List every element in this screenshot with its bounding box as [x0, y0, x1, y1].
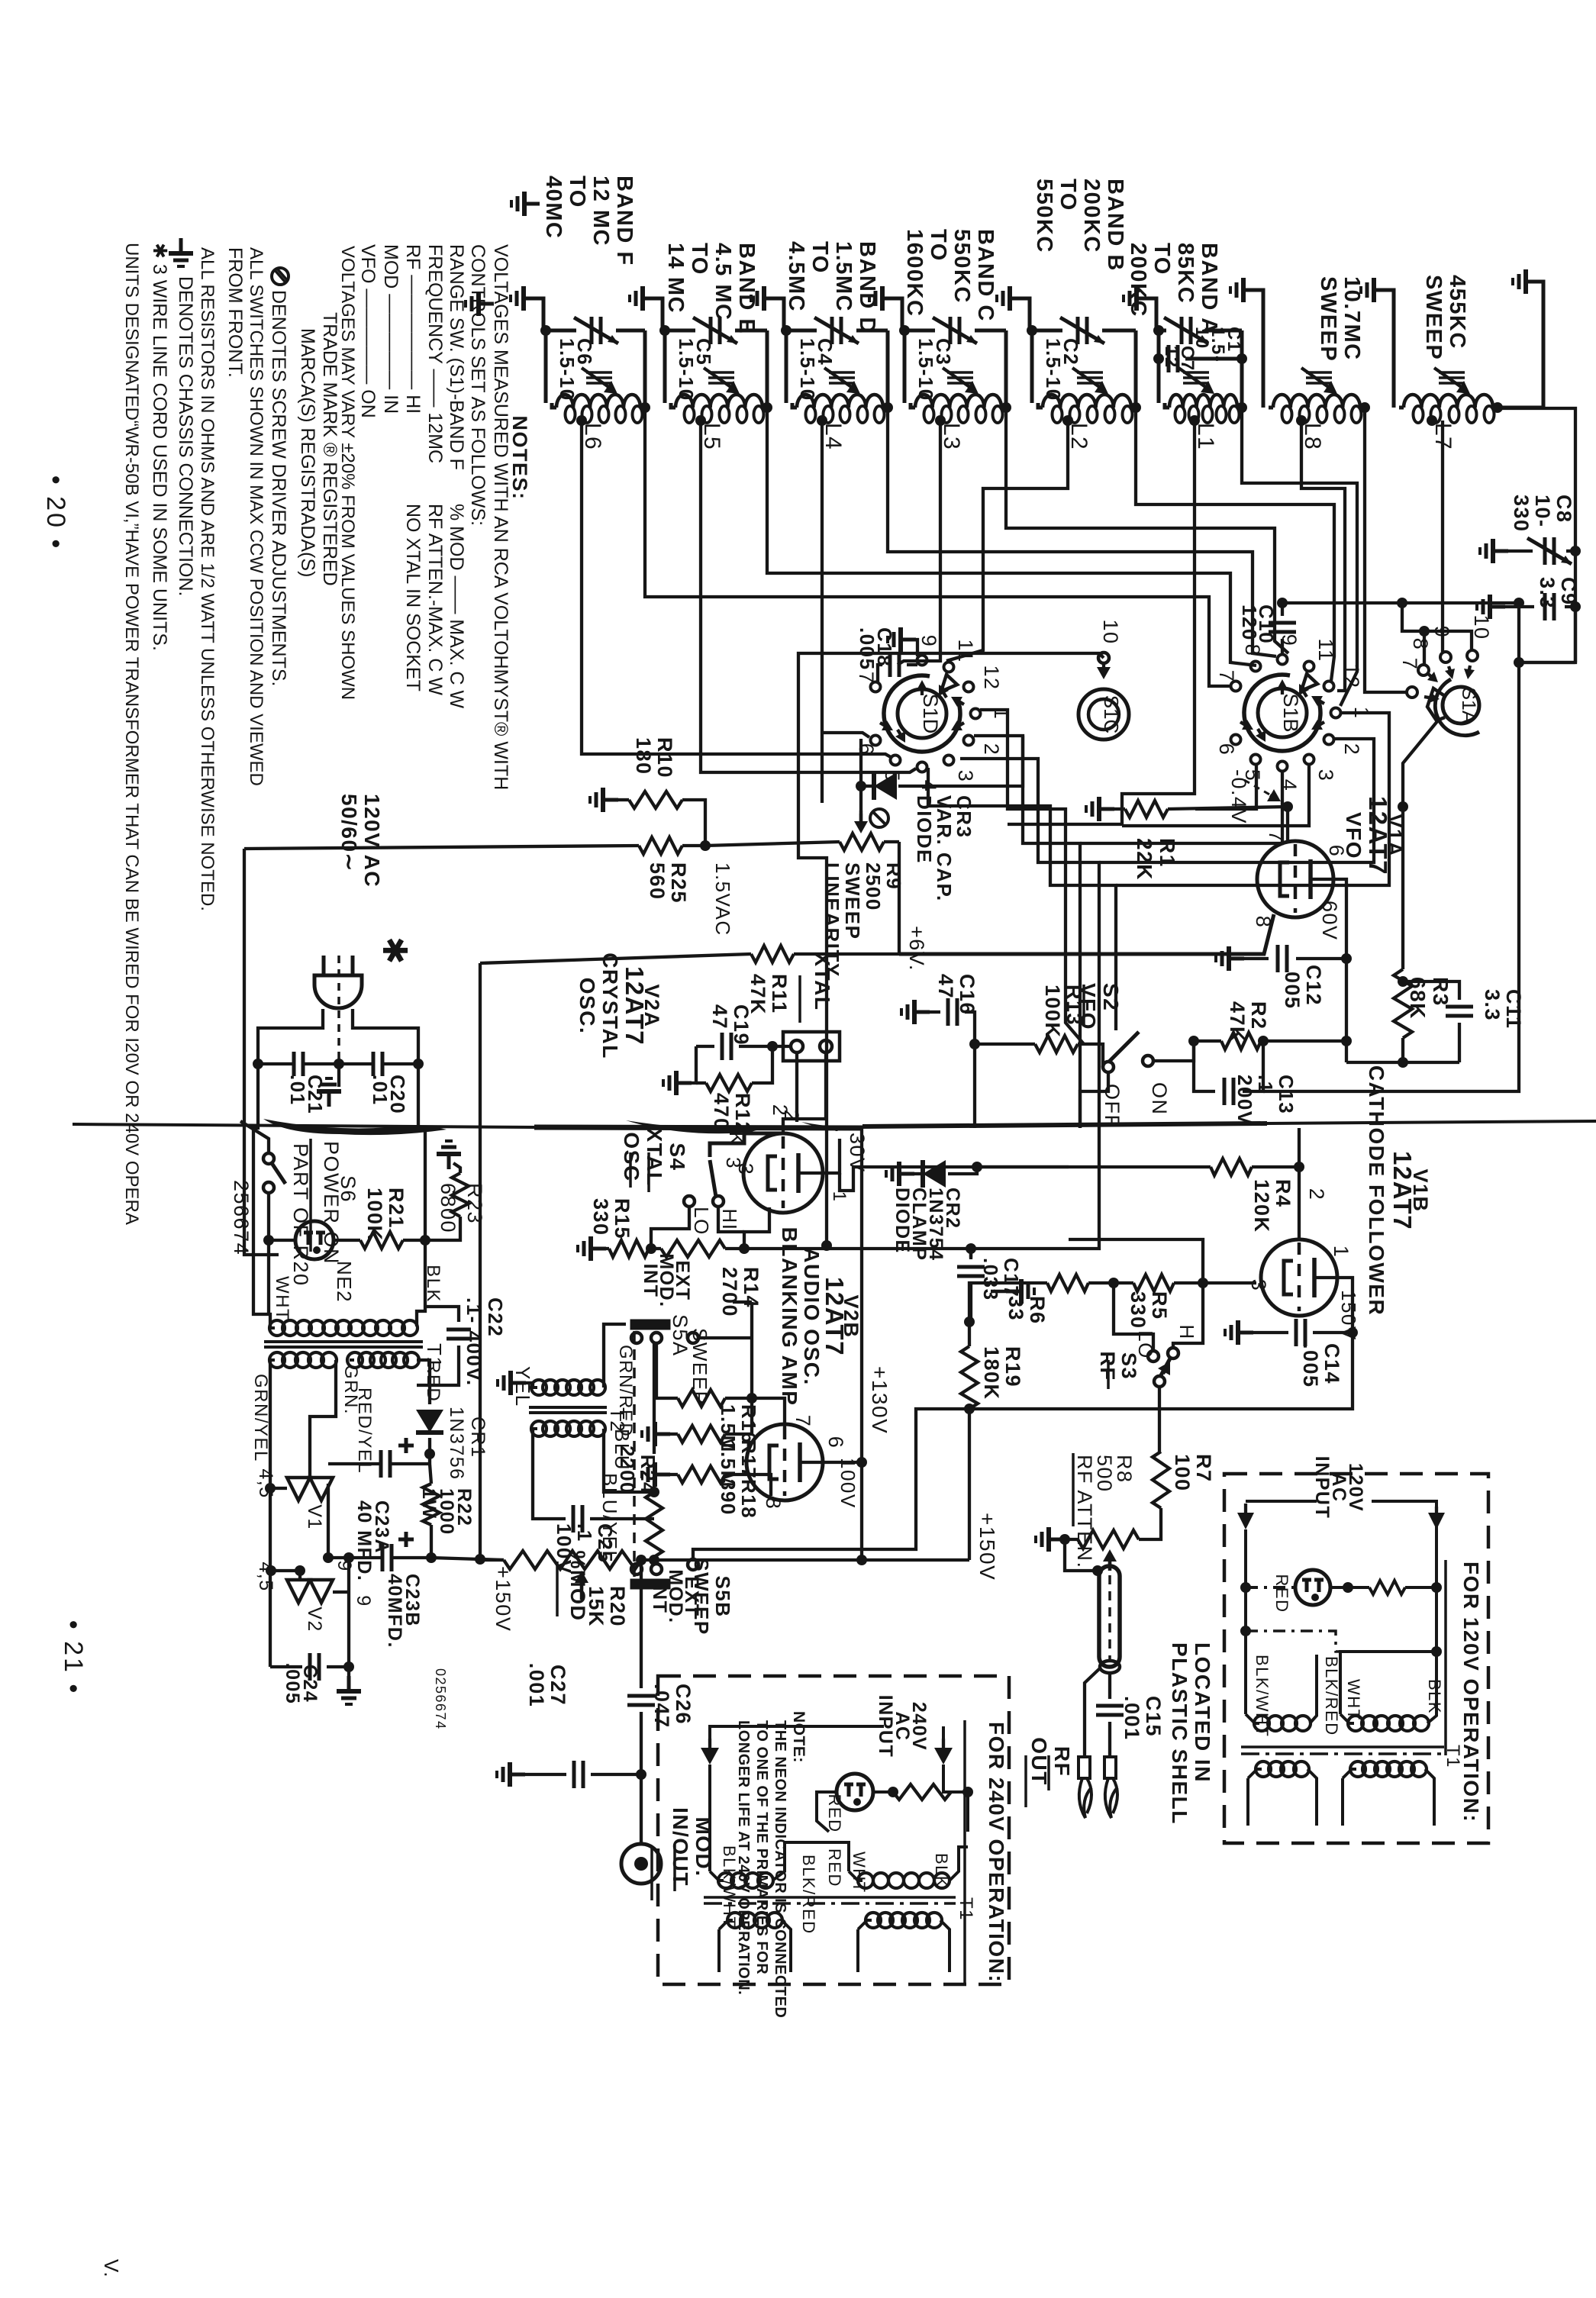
trimmer arrow of L1: [1183, 371, 1209, 374]
svg-text:RF —————— HI: RF —————— HI: [402, 244, 424, 414]
triode V2A: [743, 1133, 823, 1213]
svg-text:1: 1: [1330, 1246, 1353, 1259]
svg-text:60V: 60V: [1318, 901, 1341, 941]
contact 10 of S1C: [1098, 653, 1109, 663]
wire V1A cathode pin 8: [899, 914, 1274, 954]
svg-text:RF ATTEN.: RF ATTEN.: [1073, 1455, 1096, 1569]
wire L7 tap to S1A: [1441, 421, 1444, 652]
wire S4 pivot to tube: [710, 1133, 783, 1157]
svg-text:12AT7: 12AT7: [821, 1277, 849, 1356]
svg-text:R2015K: R2015K: [585, 1586, 629, 1627]
svg-text:S1A: S1A: [1458, 687, 1479, 724]
svg-text:R633: R633: [1004, 1296, 1049, 1325]
svg-text:RED/YEL: RED/YEL: [354, 1388, 375, 1474]
svg-text:7: 7: [792, 1415, 814, 1428]
power line right wire: [353, 1009, 418, 1064]
wire XTAL right pin to V2A grid: [783, 1052, 826, 1133]
alligator clip ground: [1085, 1668, 1100, 1757]
svg-text:FROM FRONT.: FROM FRONT.: [224, 247, 246, 378]
capacitor C15 .001: [1108, 1673, 1111, 1699]
wire V2A cathode to R14 node: [744, 1207, 769, 1249]
svg-text:1: 1: [990, 707, 1013, 720]
resistor in 120V box: [1331, 1586, 1348, 1589]
svg-text:1N3756: 1N3756: [446, 1407, 467, 1481]
trimmer arrow of L7: [1439, 371, 1465, 374]
svg-text:+150V: +150V: [975, 1513, 999, 1581]
S1A wiper output to V1A grid node: [1403, 720, 1438, 807]
svg-text:% MOD —— MAX. C W: % MOD —— MAX. C W: [446, 504, 467, 708]
svg-text:R23: R23: [463, 1183, 486, 1224]
diode CR3 VAR CAP DIODE: [861, 785, 872, 788]
alligator clip hot: [1104, 1757, 1116, 1778]
wire R4 node up across seam: [1298, 1128, 1301, 1167]
svg-text:8: 8: [762, 1497, 785, 1510]
wire L2 tap to S1D: [946, 421, 1068, 661]
inductor L4 band tank: [786, 329, 817, 333]
svg-text:-0.4V: -0.4V: [1227, 769, 1250, 824]
wire S1D right contacts bundle down: [980, 710, 1084, 1044]
capacitor C25 .1 100V: [573, 1505, 582, 1533]
ground at L8 tank: [1230, 278, 1259, 302]
svg-text:V1: V1: [304, 1504, 325, 1530]
svg-text:2: 2: [769, 1104, 792, 1117]
svg-text:FREQUENCY —— 12MC: FREQUENCY —— 12MC: [424, 244, 446, 463]
wiper of S1A: [1427, 688, 1445, 720]
T1 core: [264, 1340, 423, 1343]
wires in 240V box: [817, 1792, 835, 1832]
inductor L1 band tank: [1159, 329, 1166, 333]
capacitor C23B 40MFD: [382, 1544, 392, 1571]
ground at L1 tank: [1124, 286, 1152, 311]
inductor L3 band tank: [904, 329, 935, 333]
svg-text:T1: T1: [956, 1897, 976, 1921]
wire V2B plate to +130V: [821, 1461, 862, 1464]
rotary switch wafer S1B: [1258, 688, 1307, 737]
svg-text:TRADE MARK ® REGISTERED: TRADE MARK ® REGISTERED: [319, 312, 340, 586]
trimmer arrow of L4: [829, 371, 855, 374]
svg-text:VFO ————— ON: VFO ————— ON: [357, 244, 379, 418]
svg-text:S3RF: S3RF: [1096, 1352, 1140, 1381]
svg-text:6: 6: [1215, 743, 1238, 756]
coil tap of L8: [1296, 415, 1307, 426]
capacitor C9 3.3: [1505, 605, 1534, 608]
svg-text:R25560: R25560: [646, 862, 690, 904]
svg-text:8: 8: [1409, 638, 1432, 651]
svg-text:L5: L5: [699, 423, 724, 450]
contact 8 of S1A: [1418, 665, 1429, 675]
wire bundle tanks to S1B: [645, 397, 1230, 686]
switch S5A slide: [631, 1320, 669, 1329]
wire R20 right to +150V rail: [641, 1558, 862, 1562]
svg-text:8: 8: [1241, 644, 1264, 657]
ground at L6 tank: [511, 286, 539, 311]
svg-text:256674: 256674: [230, 1180, 253, 1255]
resistor R12 470: [663, 1071, 692, 1095]
ground at L5 tank: [630, 286, 658, 311]
svg-text:C712: C712: [1161, 346, 1198, 372]
svg-text:THE NEON INDICATOR IS CONNECTE: THE NEON INDICATOR IS CONNECTEDTO ONE OF…: [735, 1720, 788, 2018]
dashed box FOR 240V OPERATION: [658, 1676, 1009, 1984]
transformer T1 primary: [269, 1320, 285, 1336]
ground at L2 tank: [997, 286, 1025, 311]
trimmer arrow of L8: [1306, 371, 1332, 374]
svg-text:R12470: R12470: [710, 1093, 754, 1134]
wire T2 secondary leads: [533, 1429, 566, 1519]
wire T2 primary right to S5A: [604, 1324, 626, 1388]
svg-text:C17.033: C17.033: [979, 1258, 1023, 1301]
resistor R2 47K: [1221, 1033, 1261, 1049]
wire S1B bottom contacts down: [1122, 764, 1309, 826]
svg-text:C12.005: C12.005: [1281, 965, 1325, 1010]
svg-text:ALL SWITCHES SHOWN IN MAX CCW: ALL SWITCHES SHOWN IN MAX CCW POSITION A…: [246, 247, 266, 786]
wire C8-C9 right rail down to S1A: [1519, 534, 1575, 662]
wire R11 left rail down: [479, 963, 482, 1128]
ground at C21: [337, 1064, 340, 1087]
svg-text:6: 6: [855, 743, 878, 756]
capacitor C13 .1 200V: [1194, 1041, 1215, 1091]
svg-text:11: 11: [1314, 638, 1337, 662]
contact 10 of S1A: [1467, 650, 1478, 661]
contact 9 of S1A: [1440, 652, 1451, 662]
wire R5 node rail to V1B cathode pin3: [1203, 1281, 1256, 1284]
capacitor C14 .005: [1225, 1320, 1253, 1345]
svg-text:7: 7: [1265, 830, 1288, 843]
resistor R22 1000 1W: [423, 1484, 440, 1525]
wire V1A plate to C12 rail: [1332, 879, 1346, 1062]
wire R9 to +6V: [794, 842, 899, 954]
resistor R15 330: [578, 1236, 606, 1261]
svg-text:S5A: S5A: [669, 1314, 692, 1357]
svg-text:CR1: CR1: [467, 1417, 488, 1458]
potentiometer R20 15K percent MOD: [504, 1551, 641, 1569]
svg-text:R15330: R15330: [589, 1198, 634, 1239]
potentiometer R8 500 RF ATTEN: [1036, 1527, 1064, 1552]
capacitor C10 120: [1269, 623, 1296, 632]
resistor R19 180K: [961, 1346, 978, 1409]
svg-text:NOTE:: NOTE:: [790, 1711, 808, 1763]
svg-text:ALL RESISTORS IN OHMS AND ARE: ALL RESISTORS IN OHMS AND ARE 1/2 WATT U…: [197, 247, 218, 911]
triode V2B: [746, 1424, 823, 1500]
svg-text:NO XTAL IN SOCKET: NO XTAL IN SOCKET: [402, 504, 424, 691]
dashed box FOR 120V OPERATION: [1224, 1474, 1488, 1843]
S1A top rail: [1402, 603, 1472, 650]
capacitor C18 .005: [888, 627, 916, 652]
svg-text:MOD ————— IN: MOD ————— IN: [380, 244, 401, 414]
wire +150V from output line down: [968, 1409, 971, 1560]
svg-text:BLK: BLK: [1425, 1679, 1444, 1714]
neon lamp in 120V box: [1244, 1529, 1247, 1587]
svg-text:T1: T1: [1443, 1745, 1463, 1768]
triode V1A: [1257, 841, 1333, 917]
resistor R18 390: [642, 1462, 670, 1487]
svg-text:V.: V.: [100, 2259, 123, 2278]
wire R14 node right (audio line): [744, 1249, 971, 1258]
svg-text:• 21 •: • 21 •: [59, 1620, 88, 1696]
coil tap of L6: [576, 415, 587, 426]
wire S3 common down to R7: [1158, 1387, 1161, 1452]
rotary switch wafer S1D: [898, 689, 946, 738]
wire R16 to V2B grid: [752, 1398, 785, 1427]
svg-text:2: 2: [1340, 743, 1363, 756]
ground legend symbol: [169, 238, 193, 266]
svg-text:RANGE SW. (S1)-BAND F: RANGE SW. (S1)-BAND F: [446, 244, 467, 470]
svg-text:PART OF R20: PART OF R20: [289, 1143, 312, 1287]
resistor R13 100K: [1035, 1036, 1078, 1052]
capacitor C7: [1169, 345, 1178, 372]
ground symbol top left: [511, 192, 540, 216]
wire +150V row: [431, 1558, 504, 1560]
resistor R1 22K: [1086, 797, 1114, 821]
svg-text:LO: LO: [690, 1207, 713, 1236]
resistor R17 1.5M: [642, 1422, 670, 1446]
trimmer arrow of L2: [1077, 371, 1103, 374]
line cord plug: [314, 975, 362, 1008]
voltage 30V at V2A plate: [823, 1139, 840, 1173]
T1 windings in 240V box: [718, 1873, 734, 1888]
wire L1 tap down: [1008, 421, 1195, 824]
T1 windings in 120V box: [1435, 1505, 1438, 1652]
svg-text:HI: HI: [718, 1209, 741, 1231]
wire C8 C9 rail to C13 node: [1519, 603, 1575, 662]
rotary switch wafer S1A: [1443, 687, 1479, 724]
svg-text:L4: L4: [821, 423, 846, 450]
inductor L5 band tank: [665, 329, 695, 333]
capacitor C16 47: [901, 1000, 930, 1024]
svg-text:VFO: VFO: [1342, 812, 1365, 859]
svg-text:R10180: R10180: [632, 737, 676, 778]
svg-text:RED: RED: [423, 1360, 443, 1402]
svg-text:WHT: WHT: [272, 1276, 292, 1321]
svg-text:12AT7: 12AT7: [621, 966, 649, 1046]
resistor in 240V box: [893, 1784, 951, 1800]
clamp diode CR2 1N3754: [886, 1162, 914, 1186]
ground at L3 tank: [869, 286, 898, 311]
svg-text:3: 3: [1247, 1279, 1270, 1292]
jack MOD IN OUT: [640, 1774, 643, 1843]
svg-text:✱ 3 WIRE LINE CORD USED IN SOM: ✱ 3 WIRE LINE CORD USED IN SOME UNITS.: [149, 243, 170, 651]
svg-text:ON: ON: [1148, 1082, 1171, 1116]
svg-text:C27.001: C27.001: [525, 1663, 569, 1708]
coil tap of L1: [1189, 415, 1200, 426]
capacitor C26 .047: [640, 1560, 643, 1688]
svg-text:S1D: S1D: [919, 694, 942, 734]
arrows 240V input: [708, 1739, 711, 1758]
ground right of L7: [1513, 269, 1541, 294]
svg-text:0256674: 0256674: [433, 1668, 448, 1730]
wire 1.5VAC line: [639, 837, 682, 854]
wire grid V1A: [1286, 807, 1289, 843]
arrows 120V input: [1246, 1500, 1317, 1503]
svg-text:L3: L3: [939, 423, 964, 450]
heater V1: [310, 1360, 336, 1478]
svg-text:1: 1: [829, 1191, 850, 1203]
resistor R10 180: [590, 788, 618, 812]
wire S1C contact from XTAL osc line: [798, 653, 1104, 1246]
capacitor C23A 40MFD: [428, 1454, 431, 1464]
svg-text:C10120: C10120: [1238, 604, 1278, 644]
wire L7 right rail to C8 bus: [1498, 408, 1575, 534]
svg-text:L1: L1: [1193, 423, 1218, 450]
svg-text:9: 9: [353, 1595, 374, 1607]
svg-text:• 20 •: • 20 •: [41, 475, 70, 551]
capacitor C24 .005: [270, 1665, 302, 1668]
wire bundle tank taps to S1D: [582, 421, 891, 757]
wire T1 GRN secondary to heater rail: [269, 1360, 272, 1667]
svg-text:L8: L8: [1300, 423, 1325, 450]
wire S5A INT contact down to R24: [653, 1343, 656, 1454]
svg-text:1.5VAC: 1.5VAC: [711, 862, 734, 936]
coil tap of L7: [1427, 415, 1437, 426]
svg-text:3: 3: [954, 770, 977, 783]
wire S4 LO to R15 node: [651, 1207, 689, 1249]
transformer T1 secondary RED YEL: [347, 1352, 363, 1368]
inductor L6 band tank: [546, 329, 576, 333]
diode CR1 1N3756: [417, 1360, 430, 1404]
capacitor C11 3.3: [1403, 981, 1459, 1000]
resistor R14 2700: [661, 1240, 725, 1257]
neon in 240V box: [837, 1774, 873, 1810]
svg-text:R18390: R18390: [717, 1479, 760, 1519]
resistor R4 120K: [1211, 1159, 1252, 1175]
svg-text:VOLTAGES MEASURED WITH AN RCA: VOLTAGES MEASURED WITH AN RCA VOLTOHMYST…: [490, 244, 511, 790]
wire S2 down: [1080, 1072, 1108, 1128]
svg-text:3: 3: [722, 1157, 745, 1169]
trimmer arrow of L3: [947, 371, 973, 374]
ground at L7 tank: [1361, 278, 1389, 302]
resistor R21 100K: [334, 1239, 360, 1242]
svg-text:10: 10: [1099, 619, 1122, 644]
wire R8 ground leg to coax shield: [1065, 1539, 1098, 1571]
svg-text:+150V: +150V: [492, 1566, 514, 1632]
contact 7 of S1A: [1407, 687, 1417, 698]
svg-text:BLK: BLK: [423, 1265, 443, 1303]
svg-text:UNITS DESIGNATED“WR-50B VI,”HA: UNITS DESIGNATED“WR-50B VI,”HAVE POWER T…: [121, 243, 142, 1225]
wire S6 to NE2 node: [267, 1193, 270, 1240]
wire S4 HI up to V2A cathode node: [718, 1207, 744, 1232]
svg-text:YEL: YEL: [511, 1366, 534, 1407]
resistor R24 2200: [646, 1492, 663, 1557]
svg-text:11: 11: [954, 639, 977, 662]
inductor L2 band tank: [1032, 329, 1062, 333]
rotary switch wafer S1C: [1079, 689, 1129, 740]
wire +130V bus: [860, 1128, 863, 1560]
svg-text:✱: ✱: [376, 936, 413, 965]
wire S5A sweep contact to audio line: [698, 1336, 752, 1339]
svg-text:R1147K: R1147K: [746, 974, 791, 1015]
page seam line: [73, 1124, 534, 1127]
svg-text:+130V: +130V: [868, 1366, 892, 1434]
primary coils in 120V box: [1254, 1716, 1269, 1731]
svg-text:AUDIO OSC.BLANKING AMP: AUDIO OSC.BLANKING AMP: [778, 1227, 824, 1407]
svg-text:FOR 240V OPERATION:: FOR 240V OPERATION:: [985, 1722, 1008, 1983]
svg-text:FOR 120V OPERATION:: FOR 120V OPERATION:: [1459, 1562, 1483, 1823]
svg-text:RF ATTEN.-MAX. C W: RF ATTEN.-MAX. C W: [424, 504, 446, 695]
svg-text:12AT7: 12AT7: [1364, 796, 1392, 875]
capacitor C20 .01: [373, 1052, 382, 1076]
AC rail left below seam: [253, 1064, 270, 1326]
wire R3 C11 bottom join: [1346, 1061, 1459, 1064]
capacitor C17 .033: [969, 1249, 972, 1259]
T1 secondaries in 240V box: [727, 1913, 743, 1928]
capacitor C8 10-330: [1480, 539, 1508, 563]
mechanical link S5A-S5B: [633, 1331, 636, 1577]
resistor R7 100: [1153, 1452, 1169, 1508]
svg-text:DENOTES CHASSIS CONNECTION.: DENOTES CHASSIS CONNECTION.: [175, 276, 196, 597]
svg-text:BLK/RED: BLK/RED: [1322, 1656, 1341, 1736]
svg-text:C14.005: C14.005: [1299, 1343, 1343, 1388]
svg-text:GRN/YEL: GRN/YEL: [250, 1374, 271, 1462]
svg-text:C18.005: C18.005: [856, 627, 896, 671]
T2 core: [529, 1406, 607, 1409]
capacitor C21 .01: [253, 1059, 263, 1069]
coil tap of L4: [817, 415, 827, 426]
resistor R5 330: [1133, 1275, 1174, 1291]
AC rail right below seam: [417, 1064, 425, 1326]
coil tap of L3: [935, 415, 946, 426]
svg-text:MARCA(S) REGISTRADA(S): MARCA(S) REGISTRADA(S): [297, 328, 318, 577]
svg-text:4,5: 4,5: [255, 1562, 276, 1591]
resistor R23 6800: [437, 1141, 461, 1169]
wire R6 left to R19 node: [969, 1283, 1002, 1322]
resistor R3 68K: [1401, 807, 1404, 969]
svg-text:12AT7: 12AT7: [1388, 1151, 1417, 1230]
svg-text:C15.001: C15.001: [1120, 1696, 1165, 1741]
wire S1B right contacts to stair bundle: [1116, 713, 1389, 885]
svg-text:L2: L2: [1066, 423, 1091, 450]
svg-text:RED: RED: [825, 1794, 844, 1833]
potentiometer R9 2500 SWEEP LINEARITY: [840, 833, 884, 850]
svg-text:7: 7: [855, 672, 878, 685]
svg-text:6: 6: [824, 1436, 847, 1449]
T1 core in 240V box: [704, 1896, 956, 1899]
wire S3 LO loop: [1114, 1283, 1153, 1351]
resistor R11 47K: [751, 946, 794, 962]
svg-text:L6: L6: [580, 423, 605, 450]
triode V1B cathode follower: [1261, 1239, 1337, 1316]
switch S3 RF HI LO: [1148, 1351, 1159, 1362]
wire S1D wiper down to R9: [859, 739, 862, 811]
ground at L4 tank: [751, 286, 779, 311]
transformer T2 secondary BLU: [531, 1421, 547, 1436]
svg-text:WHT: WHT: [850, 1852, 869, 1894]
wire output line continues left: [969, 1407, 1159, 1410]
svg-text:C24.005: C24.005: [282, 1663, 321, 1705]
svg-text:10.7MCSWEEP: 10.7MCSWEEP: [1316, 276, 1364, 362]
coaxial cable to output: [1099, 1566, 1120, 1667]
svg-text:V2: V2: [304, 1607, 325, 1632]
coil tap of L2: [1062, 415, 1073, 426]
svg-text:+6V.: +6V.: [905, 926, 928, 972]
svg-text:S1B: S1B: [1279, 693, 1302, 732]
svg-text:2: 2: [980, 743, 1003, 756]
trimmer arrow of L6: [586, 371, 612, 374]
svg-text:3: 3: [1314, 769, 1337, 782]
svg-text:BLK: BLK: [932, 1853, 951, 1888]
wire S3 HI to rail: [1173, 1283, 1203, 1348]
wire V2A plate down to R4 line: [840, 1167, 1069, 1191]
svg-text:RED: RED: [825, 1848, 844, 1887]
120V strap dash-dot: [1246, 1631, 1340, 1652]
svg-text:GRN/RED: GRN/RED: [615, 1345, 636, 1437]
transformer T2 primary: [498, 1371, 526, 1395]
wire R13 node down: [973, 1044, 976, 1128]
switch S5B slide: [631, 1580, 669, 1588]
svg-text:BLK/RED: BLK/RED: [799, 1855, 818, 1935]
capacitor C12 .005: [1216, 946, 1244, 971]
capacitor C27 .001: [497, 1762, 525, 1787]
svg-text:4,5: 4,5: [255, 1468, 276, 1498]
svg-text:7: 7: [1215, 670, 1238, 683]
